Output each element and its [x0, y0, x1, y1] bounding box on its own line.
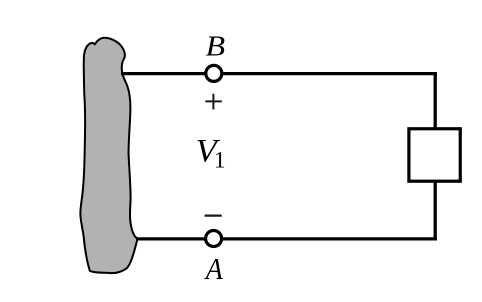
terminal B (open circle node)	[206, 65, 222, 81]
terminal A (open circle node)	[206, 231, 222, 247]
box element (unlabeled load on right branch)	[409, 129, 460, 181]
svg-text:A: A	[204, 253, 224, 287]
svg-text:B: B	[206, 30, 225, 62]
svg-text:1: 1	[214, 148, 226, 173]
minus sign (polarity of V1)	[205, 215, 222, 217]
wire top: blob through terminal B to right branch	[121, 72, 437, 75]
wire right branch (vertical, through box element)	[434, 72, 437, 241]
plus sign (polarity of V1)	[205, 94, 221, 110]
network blob (shaded amorphous circuit region)	[80, 38, 137, 273]
wire bottom: right branch through terminal A back to blob	[136, 237, 437, 240]
